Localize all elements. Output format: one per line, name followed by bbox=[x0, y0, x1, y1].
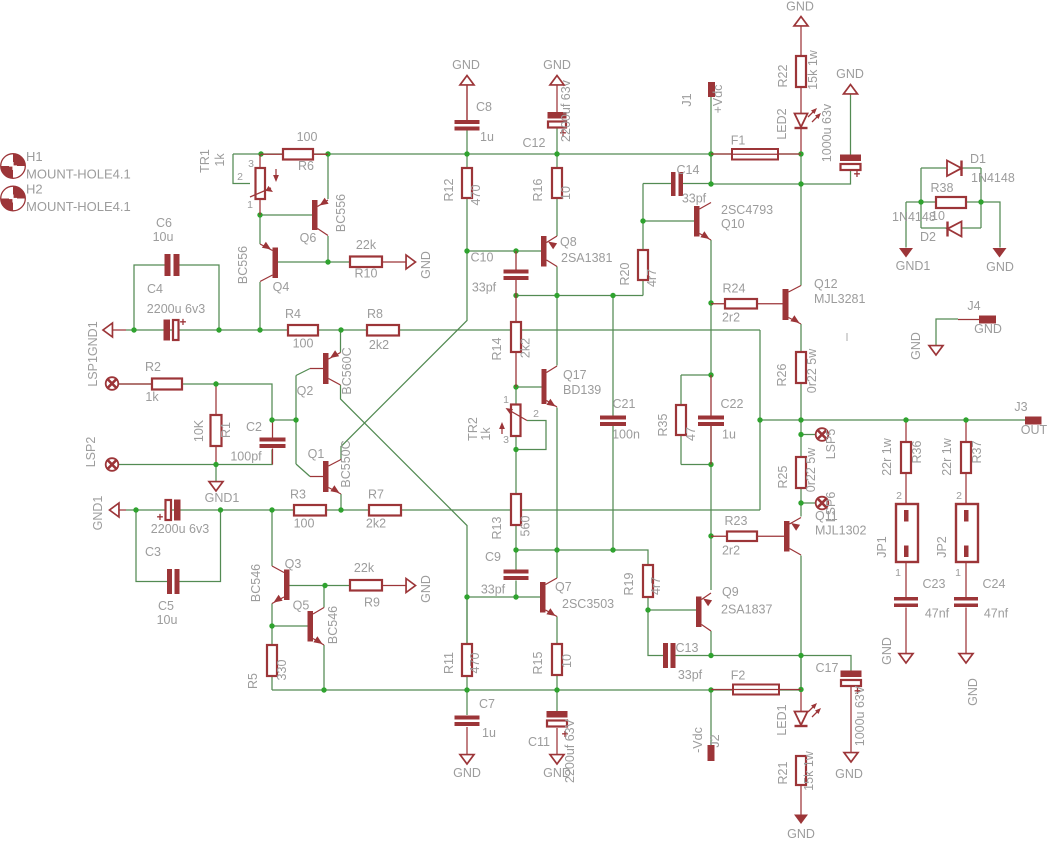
svg-text:C10: C10 bbox=[471, 251, 494, 265]
svg-text:22r 1w: 22r 1w bbox=[940, 437, 954, 475]
resistor R3 bbox=[290, 488, 326, 531]
resistor R21 bbox=[776, 750, 816, 791]
junction LSP6 bbox=[798, 500, 803, 505]
svg-text:JP1: JP1 bbox=[875, 536, 889, 558]
ground GND below R21 label mark bbox=[846, 333, 848, 341]
junction R1 top bbox=[213, 381, 218, 386]
resistor R26 bbox=[775, 348, 819, 393]
junction C2 top bbox=[269, 417, 274, 422]
mount hole H1 bbox=[1, 149, 131, 182]
svg-text:BC556: BC556 bbox=[334, 194, 348, 232]
wire R11 column bbox=[466, 597, 468, 644]
wire Q5 collector up bbox=[323, 586, 325, 608]
transistor Q3 bbox=[249, 557, 301, 604]
svg-text:2k2: 2k2 bbox=[519, 338, 533, 358]
wire diagonal A (Q1 collector to R12 node) bbox=[341, 198, 467, 460]
svg-text:R10: R10 bbox=[355, 267, 378, 281]
svg-text:2200u 6v3: 2200u 6v3 bbox=[147, 302, 205, 316]
wire R37 top bbox=[965, 420, 967, 442]
wire C12 top bbox=[556, 85, 558, 113]
junction Q1 emitter bbox=[338, 507, 343, 512]
resistor R2 bbox=[119, 360, 182, 404]
junction C8 bbox=[464, 151, 469, 156]
svg-text:TR1: TR1 bbox=[198, 149, 212, 173]
wire JP2 to C24 bbox=[965, 557, 967, 597]
capacitor C17 bbox=[816, 661, 867, 746]
svg-text:LSP2: LSP2 bbox=[84, 437, 98, 468]
wire R38 left to GND1 bbox=[906, 202, 936, 248]
svg-text:C4: C4 bbox=[147, 282, 163, 296]
svg-text:R15: R15 bbox=[531, 651, 545, 674]
ground GND below C23 bbox=[880, 637, 913, 665]
junction feedback/output bbox=[757, 417, 762, 422]
wire C21 bottom down bbox=[612, 425, 614, 551]
ground GND1 below D network bbox=[896, 248, 931, 273]
diode D1 bbox=[947, 152, 1015, 185]
wire Q8 base row bbox=[467, 250, 541, 252]
wire Q8/Q17 collector column bbox=[556, 267, 558, 366]
svg-text:BC546: BC546 bbox=[249, 564, 263, 602]
ground GND below D network bbox=[986, 248, 1014, 274]
svg-text:Q9: Q9 bbox=[722, 585, 739, 599]
junction C21 top bbox=[610, 293, 615, 298]
svg-text:C2: C2 bbox=[246, 420, 262, 434]
junction Q6 emitter bbox=[325, 151, 330, 156]
jumper JP1 bbox=[875, 490, 918, 579]
resistor R8 bbox=[367, 307, 399, 352]
wire R35/C22 bottom link bbox=[681, 435, 711, 465]
svg-text:R20: R20 bbox=[618, 262, 632, 285]
wire GND1 rail upper bbox=[126, 329, 760, 331]
svg-text:2: 2 bbox=[896, 490, 902, 502]
capacitor C2 bbox=[230, 420, 285, 464]
svg-text:GND: GND bbox=[787, 827, 815, 841]
resistor R25 bbox=[776, 447, 818, 492]
svg-text:100: 100 bbox=[294, 517, 315, 531]
junction R23 left bbox=[708, 533, 713, 538]
svg-text:F2: F2 bbox=[731, 669, 746, 683]
wire C2 pins bbox=[272, 420, 274, 465]
ground GND above R22 bbox=[786, 0, 814, 26]
diode D2 bbox=[892, 210, 962, 244]
wire R19 link bbox=[613, 550, 648, 610]
junction input node bbox=[293, 417, 298, 422]
wire VAS node row bbox=[516, 281, 643, 296]
svg-text:BC560C: BC560C bbox=[340, 347, 354, 394]
wire LSP5 stub bbox=[801, 434, 816, 436]
svg-text:GND: GND bbox=[836, 67, 864, 81]
wire Q4 base row to R10 bbox=[277, 261, 350, 263]
svg-text:3: 3 bbox=[503, 434, 509, 446]
svg-text:33pf: 33pf bbox=[472, 281, 497, 295]
connector J3 bbox=[1014, 400, 1047, 437]
svg-text:H2: H2 bbox=[26, 182, 43, 197]
junction R19 bottom bbox=[645, 607, 650, 612]
wire Q7 collector up bbox=[556, 550, 558, 578]
junction R11 bottom bbox=[464, 687, 469, 692]
junction Q5 emitter node bbox=[269, 623, 274, 628]
svg-text:GND: GND bbox=[543, 58, 571, 72]
wire C22 node down to R23 node bbox=[710, 425, 712, 537]
resistor R4 bbox=[285, 307, 318, 351]
svg-text:J3: J3 bbox=[1014, 400, 1027, 414]
wire Q7 base row bbox=[467, 596, 540, 598]
svg-text:R16: R16 bbox=[531, 178, 545, 201]
wire Q11 collector down bbox=[800, 556, 802, 690]
resistor R15 bbox=[531, 644, 574, 675]
resistor R13 bbox=[490, 494, 533, 539]
junction TR1 top bbox=[258, 151, 263, 156]
junction R15 bottom bbox=[554, 687, 559, 692]
transistor Q4 bbox=[236, 242, 289, 294]
svg-text:R6: R6 bbox=[298, 159, 314, 173]
wire C11 top bbox=[556, 690, 558, 711]
svg-text:R5: R5 bbox=[246, 673, 260, 689]
wire R37 to JP2 bbox=[965, 473, 967, 510]
wire +V top rail bbox=[233, 153, 801, 155]
wire LED1 top bbox=[800, 690, 802, 712]
capacitor C8 bbox=[455, 100, 494, 144]
junction R38 right bbox=[978, 199, 983, 204]
svg-text:2: 2 bbox=[237, 171, 243, 183]
junction Q17 base bbox=[513, 384, 518, 389]
wire D1 right link bbox=[962, 168, 982, 228]
ground GND below C11 bbox=[543, 728, 571, 780]
junction C10 top bbox=[513, 248, 518, 253]
trimmer TR1 bbox=[198, 149, 279, 215]
svg-text:Q2: Q2 bbox=[297, 384, 314, 398]
wire Q17 base bbox=[516, 386, 542, 388]
svg-text:C5: C5 bbox=[158, 599, 174, 613]
junction C9 bottom bbox=[513, 594, 518, 599]
svg-text:J4: J4 bbox=[967, 299, 980, 313]
wire F2 right node bbox=[800, 656, 802, 690]
resistor R16 bbox=[531, 168, 573, 201]
capacitor C6 bbox=[153, 216, 180, 276]
wire C7 top bbox=[466, 690, 468, 715]
svg-text:10u: 10u bbox=[153, 230, 174, 244]
svg-text:Q6: Q6 bbox=[300, 231, 317, 245]
solder lug LSP1 bbox=[86, 321, 118, 389]
svg-text:R38: R38 bbox=[931, 181, 954, 195]
resistor R1 bbox=[192, 415, 233, 446]
junction Q10 base bbox=[640, 218, 645, 223]
junction Q4 base bbox=[325, 259, 330, 264]
svg-text:3: 3 bbox=[248, 158, 254, 170]
wire Q1 emitter down bbox=[340, 494, 342, 510]
wire input row R2 to node bbox=[119, 384, 272, 420]
resistor R37 bbox=[940, 437, 984, 475]
svg-text:Q3: Q3 bbox=[285, 557, 302, 571]
svg-text:D2: D2 bbox=[920, 230, 936, 244]
junction R13 bottom bbox=[513, 547, 518, 552]
wire R10 to GND arrow bbox=[382, 261, 407, 263]
svg-text:GND: GND bbox=[835, 767, 863, 781]
svg-text:1000u 63v: 1000u 63v bbox=[820, 103, 834, 162]
wire Q9 base row bbox=[648, 609, 696, 611]
svg-text:GND: GND bbox=[880, 637, 894, 665]
svg-text:15k 1w: 15k 1w bbox=[802, 750, 816, 791]
svg-text:GND: GND bbox=[974, 322, 1002, 336]
transistor Q2 bbox=[297, 347, 354, 398]
svg-text:R11: R11 bbox=[442, 652, 456, 674]
ground GND1 below R1 bbox=[205, 482, 240, 505]
svg-text:Q7: Q7 bbox=[555, 580, 572, 594]
svg-text:1k: 1k bbox=[213, 153, 227, 167]
svg-text:GND: GND bbox=[909, 332, 923, 360]
svg-text:LED1: LED1 bbox=[775, 704, 789, 735]
junction C3 right bbox=[218, 507, 223, 512]
svg-text:LSP6: LSP6 bbox=[824, 492, 838, 523]
svg-text:R25: R25 bbox=[776, 465, 790, 488]
wire Q10 base row bbox=[643, 184, 694, 251]
trimmer TR2 bbox=[466, 394, 539, 446]
svg-text:15k 1w: 15k 1w bbox=[806, 49, 820, 90]
junction Q17 emitter bbox=[554, 547, 559, 552]
wire R36 top bbox=[905, 420, 907, 442]
wire R25 top bbox=[800, 435, 802, 458]
wire R16 bottom to Q8 emitter bbox=[556, 198, 558, 236]
svg-text:R13: R13 bbox=[490, 516, 504, 539]
svg-text:560: 560 bbox=[519, 516, 533, 537]
svg-text:GND: GND bbox=[452, 58, 480, 72]
junction F2 out bbox=[798, 687, 803, 692]
junction Q4 collector bbox=[257, 327, 262, 332]
svg-text:2k2: 2k2 bbox=[369, 338, 389, 352]
junction C14 right bbox=[708, 181, 713, 186]
junction C3 left bbox=[133, 507, 138, 512]
ground GND above C8 bbox=[452, 58, 480, 120]
junction C22 bottom bbox=[708, 462, 713, 467]
solder lug LSP6 bbox=[816, 492, 838, 523]
svg-text:47nf: 47nf bbox=[925, 607, 950, 621]
svg-text:1000u 63V: 1000u 63V bbox=[853, 685, 867, 746]
svg-text:C17: C17 bbox=[816, 661, 839, 675]
svg-text:GND: GND bbox=[419, 575, 433, 603]
wire JP1 to C23 bbox=[905, 557, 907, 597]
svg-text:1: 1 bbox=[247, 199, 253, 211]
wire Q3 base row bbox=[289, 585, 325, 587]
jumper JP2 bbox=[935, 490, 978, 579]
wire +V rail right segment bbox=[711, 154, 851, 184]
resistor R7 bbox=[366, 488, 401, 531]
transistor Q6 bbox=[300, 194, 348, 245]
svg-text:R8: R8 bbox=[367, 307, 383, 321]
svg-text:GND: GND bbox=[786, 0, 814, 14]
wire R1 GND1 stub bbox=[215, 465, 217, 484]
svg-text:2k2: 2k2 bbox=[366, 517, 386, 531]
svg-text:H1: H1 bbox=[26, 149, 43, 164]
svg-text:C3: C3 bbox=[145, 545, 161, 559]
wire R22 gnd bbox=[800, 26, 802, 57]
wire R35/C22 top link bbox=[681, 375, 711, 405]
svg-text:BC546: BC546 bbox=[326, 606, 340, 644]
svg-text:J1: J1 bbox=[680, 93, 694, 106]
capacitor C7 bbox=[455, 697, 496, 740]
resistor R35 bbox=[656, 405, 698, 441]
wire R36 to JP1 bbox=[905, 473, 907, 510]
svg-text:JP2: JP2 bbox=[935, 536, 949, 558]
resistor R19 bbox=[622, 565, 663, 597]
junction R4/R8 bbox=[338, 327, 343, 332]
svg-text:GND: GND bbox=[543, 766, 571, 780]
svg-text:Q12: Q12 bbox=[814, 277, 838, 291]
wire bottom rail bbox=[272, 689, 801, 691]
svg-text:R7: R7 bbox=[368, 488, 384, 502]
svg-text:LED2: LED2 bbox=[775, 108, 789, 139]
wire C9 link bbox=[515, 550, 517, 597]
wire Q6 emitter to +V rail bbox=[327, 154, 329, 199]
svg-text:MOUNT-HOLE4.1: MOUNT-HOLE4.1 bbox=[26, 199, 131, 214]
svg-text:10: 10 bbox=[560, 654, 574, 668]
wire R38 right to GND bbox=[966, 202, 1000, 248]
resistor R36 bbox=[880, 437, 924, 475]
fuse F2 bbox=[711, 669, 801, 695]
svg-text:R12: R12 bbox=[442, 178, 456, 201]
svg-text:1u: 1u bbox=[722, 428, 736, 442]
wire Q9 emitter up bbox=[710, 536, 712, 590]
junction R37 tap bbox=[963, 417, 968, 422]
wire C8 top bbox=[466, 85, 468, 121]
svg-text:GND: GND bbox=[419, 251, 433, 279]
junction Q5 emitter rail bbox=[321, 687, 326, 692]
wire J1 drop bbox=[710, 97, 712, 184]
capacitor C10 bbox=[471, 251, 529, 296]
svg-text:C6: C6 bbox=[156, 216, 172, 230]
svg-text:BC550C: BC550C bbox=[339, 440, 353, 487]
ground GND above C12 bbox=[543, 58, 571, 85]
wire TR2 pin1 bbox=[515, 387, 517, 404]
wire LSP2 row bbox=[119, 450, 272, 465]
wire R9 row bbox=[325, 585, 350, 587]
wire mid node row y550 bbox=[516, 549, 613, 551]
resistor R11 bbox=[442, 644, 482, 676]
ground GND below R21 bbox=[787, 785, 815, 841]
wire Q17 emitter down bbox=[556, 408, 558, 551]
svg-text:0r22 5w: 0r22 5w bbox=[804, 447, 818, 492]
capacitor C5 bbox=[157, 569, 180, 627]
svg-text:1: 1 bbox=[955, 567, 961, 579]
ground GND below C24 bbox=[959, 654, 980, 706]
transistor Q11 bbox=[784, 509, 866, 555]
svg-text:R21: R21 bbox=[776, 761, 790, 784]
svg-text:GND1: GND1 bbox=[205, 491, 240, 505]
svg-text:1u: 1u bbox=[480, 130, 494, 144]
junction TR1 bottom bbox=[257, 212, 262, 217]
svg-text:R4: R4 bbox=[285, 307, 301, 321]
wire R26 to output bbox=[800, 383, 802, 435]
wire Q6 base from TR1 node bbox=[260, 214, 312, 216]
svg-text:R26: R26 bbox=[775, 363, 789, 386]
ground GND1 lower-left arrow bbox=[91, 496, 126, 531]
svg-text:MJL3281: MJL3281 bbox=[814, 292, 865, 306]
capacitor C12 bbox=[523, 79, 573, 150]
LED LED1 bbox=[775, 703, 821, 736]
capacitor C3 bbox=[145, 500, 209, 560]
svg-text:C14: C14 bbox=[677, 163, 700, 177]
junction R11 top bbox=[464, 594, 469, 599]
resistor R10 bbox=[350, 238, 382, 281]
svg-text:C23: C23 bbox=[923, 577, 946, 591]
transistor Q12 bbox=[783, 277, 866, 324]
junction R36 tap bbox=[903, 417, 908, 422]
svg-text:+Vdc: +Vdc bbox=[711, 85, 725, 114]
junction Q3 base bbox=[322, 583, 327, 588]
resistor R12 bbox=[442, 168, 483, 205]
junction LSP5 bbox=[798, 432, 803, 437]
junction F1 out bbox=[798, 151, 803, 156]
svg-text:TR2: TR2 bbox=[466, 417, 480, 441]
junction J2 bbox=[708, 687, 713, 692]
solder lug LSP2 bbox=[84, 437, 118, 471]
wire diagonal B (Q2 collector to R11 node) bbox=[341, 385, 468, 644]
wire R1 pins bbox=[215, 384, 217, 465]
junction R38 left bbox=[918, 199, 923, 204]
junction LSP2/R1 bbox=[213, 462, 218, 467]
svg-text:33pf: 33pf bbox=[481, 583, 506, 597]
junction R26 output bbox=[798, 417, 803, 422]
wire input node to bases bbox=[272, 369, 310, 477]
LED LED2 bbox=[775, 108, 821, 140]
svg-text:R22: R22 bbox=[776, 64, 790, 87]
svg-text:Q1: Q1 bbox=[308, 447, 325, 461]
svg-text:47nf: 47nf bbox=[984, 607, 1009, 621]
svg-text:2: 2 bbox=[533, 408, 539, 420]
wire R16 top bbox=[556, 154, 558, 168]
svg-text:1: 1 bbox=[503, 394, 509, 406]
svg-text:33pf: 33pf bbox=[678, 668, 703, 682]
wire TR2 wiper loop bbox=[516, 421, 546, 450]
ground GND below C7 bbox=[453, 727, 481, 780]
svg-text:330: 330 bbox=[275, 660, 289, 681]
svg-text:2SC3503: 2SC3503 bbox=[562, 597, 614, 611]
resistor R14 bbox=[490, 296, 533, 388]
transistor Q8 bbox=[541, 235, 612, 267]
fuse F1 bbox=[711, 134, 801, 160]
svg-text:J2: J2 bbox=[708, 734, 722, 747]
resistor R5 bbox=[246, 645, 289, 689]
svg-text:R1: R1 bbox=[219, 422, 233, 438]
resistor R6 bbox=[261, 130, 328, 173]
svg-text:Q10: Q10 bbox=[721, 217, 745, 231]
svg-text:R14: R14 bbox=[490, 337, 504, 360]
svg-text:Q4: Q4 bbox=[273, 280, 290, 294]
svg-text:470: 470 bbox=[469, 185, 483, 206]
svg-text:GND1: GND1 bbox=[896, 259, 931, 273]
wire TR2 pin3 to R13 bbox=[515, 436, 517, 494]
wire 1000u top gnd bbox=[850, 94, 852, 155]
svg-text:22k: 22k bbox=[356, 238, 377, 252]
svg-text:2r2: 2r2 bbox=[722, 544, 740, 558]
capacitor C11 bbox=[528, 711, 577, 783]
svg-text:4r7: 4r7 bbox=[649, 577, 663, 595]
svg-text:LSP1GND1: LSP1GND1 bbox=[86, 321, 100, 386]
resistor R22 bbox=[776, 49, 820, 90]
connector J4 bbox=[958, 299, 1002, 336]
svg-text:R36: R36 bbox=[910, 440, 924, 463]
svg-text:100: 100 bbox=[297, 130, 318, 144]
svg-text:4r7: 4r7 bbox=[645, 269, 659, 287]
svg-text:0r22 5w: 0r22 5w bbox=[805, 348, 819, 393]
svg-text:OUT: OUT bbox=[1021, 423, 1047, 437]
wire Q12 collector up bbox=[800, 184, 802, 286]
capacitor C22 bbox=[698, 375, 744, 465]
svg-text:100pf: 100pf bbox=[230, 450, 262, 464]
capacitor C21 bbox=[600, 397, 640, 442]
svg-text:2SC4793: 2SC4793 bbox=[721, 203, 773, 217]
wire R25 bottom to LSP6 node bbox=[801, 488, 816, 517]
wire C6 loop bbox=[134, 265, 219, 330]
